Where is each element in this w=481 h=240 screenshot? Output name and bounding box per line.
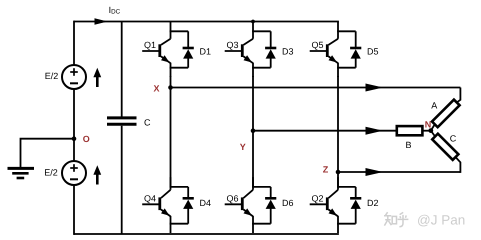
wire load C down to Z line corner [455, 157, 460, 173]
wire phase Z output [338, 171, 460, 173]
wire emitter stub Q1 [170, 63, 172, 77]
node N [428, 128, 433, 133]
svg-text:D5: D5 [367, 47, 379, 57]
transistor Q3 [225, 39, 253, 63]
wire E2 to bottom rail [73, 185, 75, 235]
wire top DC rail [74, 21, 339, 23]
wire left rail top segment [73, 21, 75, 66]
wire diode D1 bottom to leg [170, 67, 189, 69]
wire leg 2 upper-to-Y [252, 76, 254, 131]
wire emitter stub Q6 [252, 216, 254, 233]
junction dot top rail / leg 2 [251, 20, 255, 24]
wire collector stub Q5 [337, 22, 339, 39]
node Y [251, 128, 256, 133]
wire capacitor top lead [121, 22, 123, 118]
wire leg 1 X-to-lower [170, 88, 172, 187]
transistor Q5 [310, 39, 338, 63]
diode D2 [350, 187, 361, 224]
current direction arrow beside E2 [93, 165, 101, 184]
wire diode D2 bottom to leg [337, 223, 356, 225]
wire emitter stub Q3 [252, 63, 254, 77]
svg-text:Q5: Q5 [312, 40, 324, 50]
wire collector stub Q1 [170, 22, 172, 39]
svg-text:B: B [406, 140, 412, 150]
wire leg 1 upper-to-X [170, 76, 172, 88]
load A (resistor, rotated) [432, 100, 460, 128]
wire collector stub Q6 [252, 177, 254, 190]
svg-text:E/2: E/2 [45, 71, 59, 81]
wire tee to diode D4 top [170, 186, 189, 188]
svg-text:Q6: Q6 [227, 193, 239, 203]
svg-text:D2: D2 [367, 198, 379, 208]
svg-text:C: C [144, 118, 151, 128]
voltage source E1 (top E/2) [62, 65, 86, 89]
svg-text:D6: D6 [282, 198, 294, 208]
node X [168, 85, 173, 90]
current direction arrow beside E1 [93, 68, 101, 87]
wire leg 2 Y-to-lower [252, 131, 254, 187]
svg-text:N: N [425, 119, 432, 129]
wire collector stub Q2 [337, 177, 339, 190]
wire collector stub Q4 [170, 177, 172, 190]
wire collector stub Q3 [252, 22, 254, 39]
diode D6 [265, 187, 276, 224]
wire leg 3 upper-to-Z [337, 76, 339, 172]
wire diode D5 bottom to leg [337, 67, 356, 69]
wire emitter stub Q4 [170, 216, 172, 233]
diode D4 [183, 187, 194, 224]
arrow on Z line [366, 168, 384, 176]
svg-text:Q2: Q2 [312, 193, 324, 203]
svg-text:Q4: Q4 [144, 193, 156, 203]
wire node N to load C [431, 131, 436, 137]
diode D3 [265, 31, 276, 67]
svg-text:A: A [431, 100, 437, 110]
arrow on Y line [366, 127, 384, 135]
wire emitter stub Q2 [337, 216, 339, 233]
svg-text:O: O [83, 134, 90, 144]
svg-text:E/2: E/2 [44, 168, 58, 178]
wire diode D4 bottom to leg [170, 223, 189, 225]
wire tee to diode D1 top [170, 30, 189, 32]
svg-text:X: X [154, 83, 160, 93]
diode D1 [183, 31, 194, 67]
wire tee to diode D2 top [337, 186, 356, 188]
wire X line corner down to load A [457, 88, 461, 103]
watermark 知乎 @J Pan [384, 212, 408, 227]
svg-text:D3: D3 [282, 47, 294, 57]
wire load A to node N [431, 125, 435, 131]
svg-text:Z: Z [323, 164, 329, 174]
wire emitter stub Q5 [337, 63, 339, 77]
svg-text:D4: D4 [200, 198, 212, 208]
transistor Q6 [225, 190, 253, 217]
wire bottom DC rail [74, 233, 339, 235]
wire leg 3 Z-to-lower [337, 172, 339, 186]
capacitor C [107, 118, 137, 124]
diode D5 [350, 31, 361, 67]
transistor Q2 [310, 190, 338, 217]
current arrow Idc on top rail [95, 18, 108, 24]
node O [72, 136, 77, 141]
wire tee to diode D5 top [337, 30, 356, 32]
arrow on X line [366, 84, 384, 92]
transistor Q4 [142, 190, 170, 217]
wire tee to diode D6 top [252, 186, 271, 188]
wire diode D6 bottom to leg [252, 223, 271, 225]
wire phase X output [171, 87, 461, 89]
svg-text:Q1: Q1 [144, 40, 156, 50]
wire capacitor bottom lead [121, 126, 123, 234]
wire phase Y output [253, 130, 397, 132]
svg-text:@J Pan: @J Pan [417, 213, 465, 228]
transistor Q1 [142, 39, 170, 63]
node Z [336, 170, 341, 175]
wire node O to ground [21, 139, 75, 168]
svg-text:C: C [450, 133, 457, 143]
svg-text:Y: Y [240, 142, 246, 152]
ground [8, 168, 35, 178]
svg-text:Q3: Q3 [227, 40, 239, 50]
wire diode D3 bottom to leg [252, 67, 271, 69]
wire E1 to node O [73, 89, 75, 161]
voltage source E2 (bottom E/2) [62, 161, 86, 185]
wire load B to node N [422, 130, 430, 132]
svg-text:D1: D1 [200, 47, 212, 57]
wire tee to diode D3 top [252, 30, 271, 32]
load B (resistor) [397, 126, 423, 135]
load C (resistor, rotated) [432, 134, 458, 160]
